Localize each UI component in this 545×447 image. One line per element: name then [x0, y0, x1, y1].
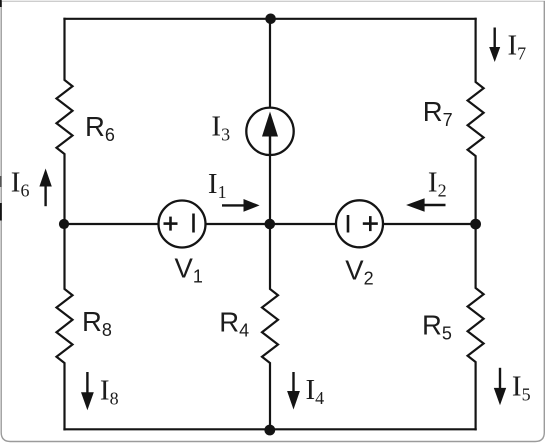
left edge artifact small — [0, 176, 2, 187]
left edge artifact top — [0, 0, 2, 7]
voltage source V1 circle — [159, 201, 206, 248]
voltage source V2 plus sign — [363, 216, 378, 231]
wire top horizontal — [65, 18, 476, 20]
voltage source V1 minus bar — [192, 214, 195, 233]
voltage source V2 minus bar — [347, 215, 350, 233]
current arrow I5 (down) — [494, 368, 506, 406]
wire bottom horizontal — [65, 428, 476, 430]
wire center vertical branch with resistor R4 — [262, 19, 278, 430]
current source I3 internal arrow — [262, 112, 278, 155]
wire right branch with resistor R7 and resistor R5 — [468, 19, 484, 430]
node center — [265, 219, 276, 230]
current arrow I2 (left) — [406, 198, 445, 211]
current arrow I8 (down) — [81, 372, 94, 410]
current arrow I6 (up) — [39, 169, 51, 207]
node left middle — [59, 219, 69, 229]
wire middle horizontal — [65, 223, 476, 225]
node bottom center — [264, 425, 275, 436]
node right middle — [470, 219, 481, 230]
current arrow I4 (down) — [287, 372, 300, 410]
current arrow I7 (down) — [489, 28, 500, 63]
current source I3 circle — [246, 108, 293, 155]
left edge artifact mid — [0, 203, 2, 221]
node top center — [265, 13, 276, 24]
border frame top edge — [0, 0, 545, 2]
current arrow I1 (right) — [222, 199, 260, 212]
voltage source V2 circle — [336, 200, 383, 247]
voltage source V1 plus sign — [164, 217, 178, 231]
wire left branch with resistor R6 and resistor R8 — [57, 19, 73, 430]
